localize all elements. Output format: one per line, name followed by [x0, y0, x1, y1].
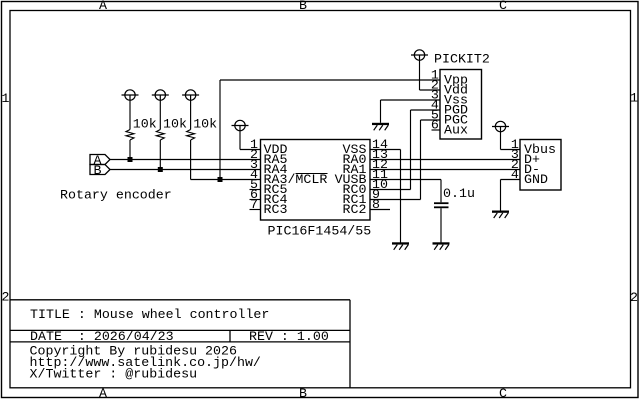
PGD wire vertical [410, 110, 412, 190]
junction dot R2/netB [158, 167, 163, 172]
pin 5 stub [250, 189, 261, 191]
svg-text:1: 1 [2, 91, 10, 106]
pin 12 D- wire to USB [370, 169, 520, 171]
svg-text:A: A [99, 386, 107, 400]
capacitor C1 plates [434, 202, 449, 204]
svg-text:Aux: Aux [444, 123, 468, 138]
svg-text:TITLE : Mouse wheel controller: TITLE : Mouse wheel controller [30, 307, 269, 322]
wire Vss pin3 to ground [381, 99, 441, 101]
svg-text:10k: 10k [133, 116, 157, 131]
left pin numbers 1-7 [250, 137, 258, 212]
svg-text:DATE : 2026/04/23: DATE : 2026/04/23 [30, 329, 174, 344]
wire Vpp horizontal to PICKIT2 pin1 [220, 79, 440, 81]
svg-text:10k: 10k [193, 116, 217, 131]
svg-text:1: 1 [630, 91, 638, 106]
power symbol above PICKIT2 Vdd [411, 50, 428, 61]
IC U1 PIC16F1454/55 body [261, 140, 371, 221]
wire Vpp vertical [219, 80, 221, 180]
power symbol above pin1 VDD [232, 120, 249, 131]
power symbol P3 above R3 [182, 90, 199, 101]
PICKIT2 pin 6 stub [432, 129, 441, 131]
svg-text:0.1u: 0.1u [443, 186, 475, 201]
svg-text:7: 7 [250, 197, 258, 212]
VSS ground vertical wire [400, 150, 402, 244]
ground symbol below PICKIT2 Vss [372, 123, 389, 131]
svg-text:2: 2 [630, 290, 638, 305]
svg-text:PICKIT2: PICKIT2 [434, 51, 490, 66]
resistor R2 10k [159, 100, 161, 130]
svg-text:6: 6 [431, 118, 439, 133]
ground symbol below C1 [433, 242, 450, 250]
svg-text:RC3: RC3 [264, 202, 288, 217]
pin 6 stub [250, 199, 261, 201]
capacitor C1 0.1u wire top [440, 180, 442, 203]
PICKIT2 pin numbers [431, 68, 439, 133]
wire net B row (encoder B to pin3) [110, 169, 261, 171]
wire power to Vdd pin2 [419, 60, 421, 90]
junction dot Vpp/R3/MCLR [218, 177, 223, 182]
svg-text:2: 2 [2, 289, 10, 304]
connector CN1 USB body [520, 140, 561, 191]
pin 1 stub and VDD power wire [240, 149, 261, 151]
svg-text:A: A [99, 0, 107, 13]
wire GND pin4 to ground [501, 179, 521, 181]
svg-text:C: C [499, 386, 507, 400]
svg-text:C: C [499, 0, 507, 13]
ground symbol below USB GND [492, 211, 509, 219]
USB pin numbers [511, 137, 519, 182]
connector CN2 PICKIT2 body [440, 70, 482, 140]
svg-text:X/Twitter : @rubidesu: X/Twitter : @rubidesu [30, 367, 198, 382]
svg-text:RC2: RC2 [343, 202, 367, 217]
wire net A row (encoder A to pin2) [110, 159, 261, 161]
pin 14 VSS wire [370, 149, 401, 151]
MCLR overline [296, 173, 328, 175]
svg-text:B: B [94, 163, 102, 178]
power symbol P1 above R1 [122, 90, 139, 101]
pin 13 D+ wire to USB [370, 159, 520, 161]
svg-text:REV : 1.00: REV : 1.00 [249, 329, 329, 344]
wire MCLR row (R3 to pin4) [191, 179, 261, 181]
pin 10 wire to PGD [370, 189, 411, 191]
svg-text:GND: GND [524, 172, 548, 187]
pin 11 VUSB wire [370, 179, 441, 181]
PGC wire vertical [420, 120, 422, 200]
pin 8 stub [370, 209, 390, 211]
resistor R1 10k [129, 100, 131, 130]
pin 9 wire to PGC [370, 199, 421, 201]
svg-text:B: B [299, 0, 307, 13]
svg-text:B: B [299, 386, 307, 400]
junction dot R1/netA [128, 157, 133, 162]
connector encoder pin A tag [90, 155, 110, 165]
power symbol P2 above R2 [152, 90, 169, 101]
svg-text:10k: 10k [163, 116, 187, 131]
capacitor C1 wire bottom [440, 208, 442, 243]
svg-text:4: 4 [511, 167, 519, 182]
pin 7 stub [250, 209, 261, 211]
svg-text:Rotary encoder: Rotary encoder [60, 188, 172, 203]
PGC wire horizontal [421, 119, 441, 121]
title block box lines [10, 300, 350, 388]
power symbol above USB Vbus [492, 121, 509, 132]
connector encoder pin B tag [90, 165, 110, 175]
right pin labels [335, 142, 367, 217]
wire power to Vbus pin1 [500, 132, 502, 150]
resistor R3 10k [190, 100, 192, 130]
svg-text:PIC16F1454/55: PIC16F1454/55 [268, 224, 372, 239]
PGD wire horizontal [411, 109, 441, 111]
ground symbol below VSS [392, 242, 409, 250]
